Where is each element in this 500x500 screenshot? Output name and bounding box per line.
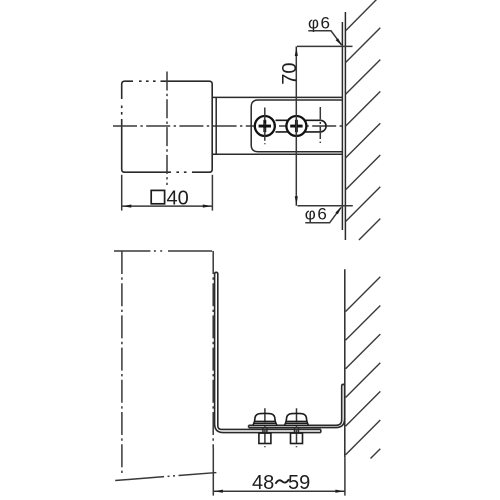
dimension 48-59: left extension bbox=[212, 448, 214, 496]
square pipe vertical centerline bbox=[166, 72, 168, 186]
phantom pipe: left vertical bbox=[121, 251, 123, 475]
dimension 48-59: tilde bbox=[276, 479, 289, 484]
dimension 70: arrow down bbox=[295, 196, 298, 205]
leader bottom phi6: arrow bbox=[335, 206, 341, 214]
dimension 70: arrow up bbox=[295, 47, 298, 56]
bolt B2 shank bbox=[295, 428, 299, 433]
svg-text:40: 40 bbox=[167, 187, 189, 209]
nut N2 bbox=[291, 433, 303, 443]
main horizontal centerline bbox=[113, 125, 342, 127]
svg-text:59: 59 bbox=[288, 472, 310, 494]
bolt B2 centerline bbox=[296, 408, 298, 447]
phillips cross M1 bbox=[259, 120, 271, 132]
dimension square40: dimension line bbox=[122, 205, 213, 207]
leader bottom phi6: underline and leader bbox=[305, 208, 341, 223]
wall extension to dimension bbox=[344, 457, 346, 495]
wall face lines (top view) bbox=[342, 12, 345, 240]
bolt B1 shank bbox=[263, 428, 267, 433]
wall hatching (top view) bbox=[346, 0, 381, 240]
bolt B2 dome head bbox=[286, 413, 307, 421]
screw head M2 (phillips, right) bbox=[286, 116, 306, 136]
phillips cross M2 bbox=[290, 120, 302, 132]
phantom pipe: right vertical bbox=[212, 251, 214, 448]
svg-text:48: 48 bbox=[252, 472, 274, 494]
phantom pipe: bottom slanted bbox=[115, 472, 221, 480]
pipe holder L-plate (channel) bbox=[215, 272, 321, 432]
dimension 70: extension line bottom bbox=[297, 205, 352, 207]
bolt B1 washer flange bbox=[253, 421, 277, 425]
centre tick slot end bbox=[319, 107, 321, 143]
leader top phi6: arrow bbox=[336, 38, 343, 46]
dimension square40: arrow right bbox=[203, 205, 212, 208]
leader top phi6: underline and leader bbox=[308, 31, 341, 45]
dimension 48-59: arrow left bbox=[214, 490, 223, 493]
phantom pipe: top horizontal bbox=[114, 250, 216, 252]
wall plate with rounded corners (top view) bbox=[251, 100, 342, 152]
bolt B2 washer flange bbox=[285, 421, 309, 425]
dimension 70: dimension line bbox=[295, 46, 297, 205]
dimension 48-59: arrow right bbox=[335, 490, 344, 493]
bolt B1 centerline bbox=[264, 408, 266, 447]
wall hatching (bottom view) bbox=[346, 277, 381, 459]
screw head M1 (phillips, left) bbox=[255, 116, 275, 136]
dimension square40: arrow left bbox=[122, 205, 131, 208]
bracket socket plate (outer rectangle, top view) bbox=[212, 97, 342, 154]
square pipe 40x40 (top view outline, partly phantom) bbox=[122, 81, 213, 172]
dimension square40: extension lines bbox=[122, 175, 213, 211]
dimension 48-59: dimension line bbox=[213, 490, 345, 492]
svg-text:φ6: φ6 bbox=[305, 205, 328, 224]
svg-text:70: 70 bbox=[279, 63, 301, 85]
nut N1 bbox=[259, 433, 271, 443]
dimension 70: extension line top bbox=[297, 45, 353, 47]
dimension square40: square symbol bbox=[151, 190, 164, 203]
bolt B1 dome head bbox=[255, 413, 276, 421]
svg-text:φ6: φ6 bbox=[308, 14, 331, 33]
wall face line (bottom view) bbox=[344, 269, 346, 457]
slotted hole (top view) bbox=[276, 120, 327, 132]
wall bracket L-plate bbox=[249, 384, 345, 427]
centre tick M1 bbox=[264, 108, 266, 145]
